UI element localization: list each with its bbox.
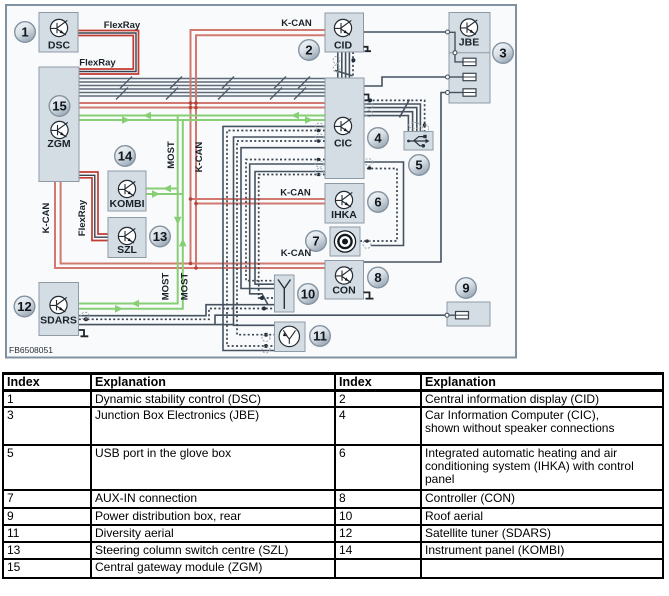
control unit symbol IHKA xyxy=(335,191,352,208)
wire harness ZGM to CIC (6 gray lines with slashes) xyxy=(79,79,325,97)
wire K-CAN CID branch down to CON xyxy=(191,30,325,268)
control unit box DSC xyxy=(39,13,78,53)
svg-text:MOST: MOST xyxy=(180,273,191,301)
svg-text:11: 11 xyxy=(313,329,327,344)
antenna bundle CIC line 7 (solid) to roof aerial via diagonal xyxy=(250,164,325,305)
index circle 1 xyxy=(15,22,36,43)
index circle 13 xyxy=(150,226,171,247)
svg-text:15: 15 xyxy=(52,99,66,114)
index circle 14 xyxy=(115,146,136,167)
index circle 11 xyxy=(310,326,331,347)
label CID xyxy=(334,40,353,52)
USB bundle CIC solid lines xyxy=(364,100,420,132)
CID to CIC bundle xyxy=(335,52,353,78)
black junction dots xyxy=(84,58,426,348)
svg-text:2: 2 xyxy=(305,43,312,58)
diagram frame xyxy=(6,5,516,358)
wire K-CAN ZGM to CIC xyxy=(79,103,325,108)
CID to CIC dotted line xyxy=(352,52,354,78)
power distribution box rear xyxy=(447,302,490,326)
control unit symbol CID xyxy=(334,19,351,36)
wire CID to JBE xyxy=(364,31,446,33)
svg-text:K-CAN: K-CAN xyxy=(280,188,311,199)
svg-text:MOST: MOST xyxy=(161,273,172,301)
label K-CAN vertical left xyxy=(41,203,52,234)
label K-CAN vertical mid xyxy=(194,142,205,173)
label FlexRay second xyxy=(79,58,116,69)
index circle 4 xyxy=(368,128,389,149)
junction dots K-CAN xyxy=(189,101,198,270)
svg-text:K-CAN: K-CAN xyxy=(41,203,52,234)
AUX-IN connection box xyxy=(330,227,360,256)
antenna bundle CIC line 9 (dotted) to roof aerial xyxy=(259,175,325,299)
svg-text:FB6508051: FB6508051 xyxy=(9,345,53,355)
wire SDARS to power distribution box 9 xyxy=(79,315,445,324)
wire K-CAN branch to IHKA xyxy=(191,199,326,204)
label JBE xyxy=(459,37,479,49)
wire CIC to JBE xyxy=(364,77,446,86)
index circle 7 xyxy=(306,231,327,252)
roof aerial symbol xyxy=(278,280,291,310)
AUX-IN loop solid wire CIC to AUX xyxy=(364,162,404,246)
antenna bundle CIC line 8 (solid) to roof aerial xyxy=(255,172,325,285)
index circle 15 xyxy=(49,96,70,117)
svg-text:14: 14 xyxy=(118,149,133,164)
ground at CON xyxy=(364,292,374,298)
wire MOST vertical branch down to SDARS xyxy=(79,116,183,309)
svg-text:1: 1 xyxy=(21,25,28,40)
svg-text:FlexRay: FlexRay xyxy=(104,20,141,31)
control unit box SZL xyxy=(108,218,146,258)
harness slash marks xyxy=(116,77,310,100)
label FB6508051 xyxy=(9,345,53,355)
wire MOST ZGM to CIC (green pair) xyxy=(79,116,325,121)
label K-CAN top xyxy=(281,18,312,29)
svg-text:13: 13 xyxy=(153,229,167,244)
control unit box CID xyxy=(325,13,364,52)
label K-CAN CON xyxy=(281,248,312,259)
dashed connector ellipses xyxy=(81,56,429,353)
AUX-IN loop dotted wire xyxy=(360,169,397,242)
antenna bundle CIC line 1 (solid) to diversity aerial xyxy=(223,126,325,350)
svg-text:6: 6 xyxy=(374,195,381,210)
svg-text:FlexRay: FlexRay xyxy=(77,199,88,236)
label FlexRay vertical xyxy=(77,199,88,236)
control unit box ZGM xyxy=(39,67,79,182)
AUX-IN connector symbol xyxy=(334,231,355,252)
svg-text:10: 10 xyxy=(301,287,315,302)
MOST direction arrows xyxy=(115,112,313,313)
svg-text:K-CAN: K-CAN xyxy=(281,248,312,259)
control unit symbol DSC xyxy=(50,19,67,36)
control unit box IHKA xyxy=(325,184,364,224)
diversity aerial box xyxy=(275,322,306,352)
fuse 3 in JBE xyxy=(450,89,477,96)
label IHKA xyxy=(331,209,357,221)
control unit symbol CIC xyxy=(334,117,351,134)
svg-text:ZGM: ZGM xyxy=(47,138,71,150)
label K-CAN IHKA xyxy=(280,188,311,199)
svg-text:3: 3 xyxy=(499,46,506,61)
svg-text:JBE: JBE xyxy=(459,37,479,49)
index circle 9 xyxy=(456,278,477,299)
diversity aerial symbol xyxy=(279,326,299,346)
svg-text:9: 9 xyxy=(462,281,469,296)
ground at CID xyxy=(364,47,372,51)
label ZGM xyxy=(47,138,71,150)
wire FlexRay ZGM to SZL (red/black/red) xyxy=(79,172,108,241)
wire MOST branch to KOMBI xyxy=(146,189,183,195)
control unit box SDARS xyxy=(39,283,79,336)
index circle 6 xyxy=(368,192,389,213)
index circle 8 xyxy=(368,267,389,288)
antenna bundle CIC line 5 (solid) to roof aerial xyxy=(241,148,325,289)
svg-text:SDARS: SDARS xyxy=(40,315,77,327)
label SZL xyxy=(117,244,137,256)
antenna bundle CIC line 6 (dotted) to roof aerial xyxy=(246,160,325,281)
index circle 12 xyxy=(14,296,35,317)
label MOST vertical lower right xyxy=(180,273,191,301)
ground at SDARS xyxy=(79,330,89,336)
index circle 5 xyxy=(409,155,430,176)
fuse 1 in JBE xyxy=(450,32,477,65)
USB bundle CIC dotted line xyxy=(364,100,425,131)
control unit box CON xyxy=(325,261,364,300)
wire FlexRay loop DSC to ZGM (red/black/red) xyxy=(78,31,139,75)
label DSC xyxy=(48,40,71,52)
svg-text:CON: CON xyxy=(332,285,355,297)
svg-text:4: 4 xyxy=(374,131,382,146)
USB port box xyxy=(404,132,433,151)
svg-text:5: 5 xyxy=(415,158,422,173)
control unit box CIC xyxy=(325,78,364,179)
control unit symbol SDARS xyxy=(50,296,67,313)
svg-text:7: 7 xyxy=(312,234,319,249)
control unit symbol KOMBI xyxy=(118,180,135,197)
wire K-CAN ZGM down to CON xyxy=(55,182,325,268)
wire SDARS aerial lead to roof aerial (dotted) xyxy=(79,309,275,320)
svg-text:K-CAN: K-CAN xyxy=(194,142,205,173)
index circle 2 xyxy=(299,40,320,61)
label SDARS xyxy=(40,315,77,327)
control unit symbol JBE xyxy=(460,19,477,36)
svg-text:8: 8 xyxy=(374,270,381,285)
label MOST vertical upper xyxy=(166,141,177,169)
label KOMBI xyxy=(110,198,145,210)
wire SDARS aerial lead to roof aerial (solid) xyxy=(79,305,275,316)
control unit symbol CON xyxy=(335,267,352,284)
svg-text:IHKA: IHKA xyxy=(331,209,357,221)
label CON xyxy=(332,285,355,297)
fuse 2 in JBE xyxy=(450,73,477,80)
antenna bundle CIC line 2 (dotted) to diversity aerial xyxy=(227,131,325,347)
label MOST vertical lower left xyxy=(161,273,172,301)
svg-text:SZL: SZL xyxy=(117,244,137,256)
control unit box JBE xyxy=(449,13,490,104)
antenna bundle CIC line 3 (solid) to diversity aerial xyxy=(234,137,326,325)
wire JBE to CON xyxy=(364,93,447,263)
antenna bundle CIC line 4 (dotted) to diversity aerial xyxy=(237,141,325,335)
control unit symbol SZL xyxy=(118,227,135,244)
USB symbol xyxy=(407,135,429,148)
svg-text:12: 12 xyxy=(17,299,31,314)
svg-text:CID: CID xyxy=(334,40,353,52)
ground at CIC xyxy=(364,95,372,101)
label FlexRay top xyxy=(104,20,141,31)
label CIC xyxy=(334,138,353,150)
svg-text:CIC: CIC xyxy=(334,138,353,150)
index circle 3 xyxy=(493,43,514,64)
control unit symbol ZGM xyxy=(51,121,68,138)
svg-text:DSC: DSC xyxy=(48,40,71,52)
svg-text:MOST: MOST xyxy=(166,141,177,169)
svg-text:KOMBI: KOMBI xyxy=(110,198,145,210)
control unit box KOMBI xyxy=(108,171,146,211)
connector circles JBE and box 9 xyxy=(445,30,457,317)
index circle 10 xyxy=(298,284,319,305)
roof aerial box xyxy=(275,275,295,312)
svg-text:FlexRay: FlexRay xyxy=(79,58,116,69)
svg-text:K-CAN: K-CAN xyxy=(281,18,312,29)
